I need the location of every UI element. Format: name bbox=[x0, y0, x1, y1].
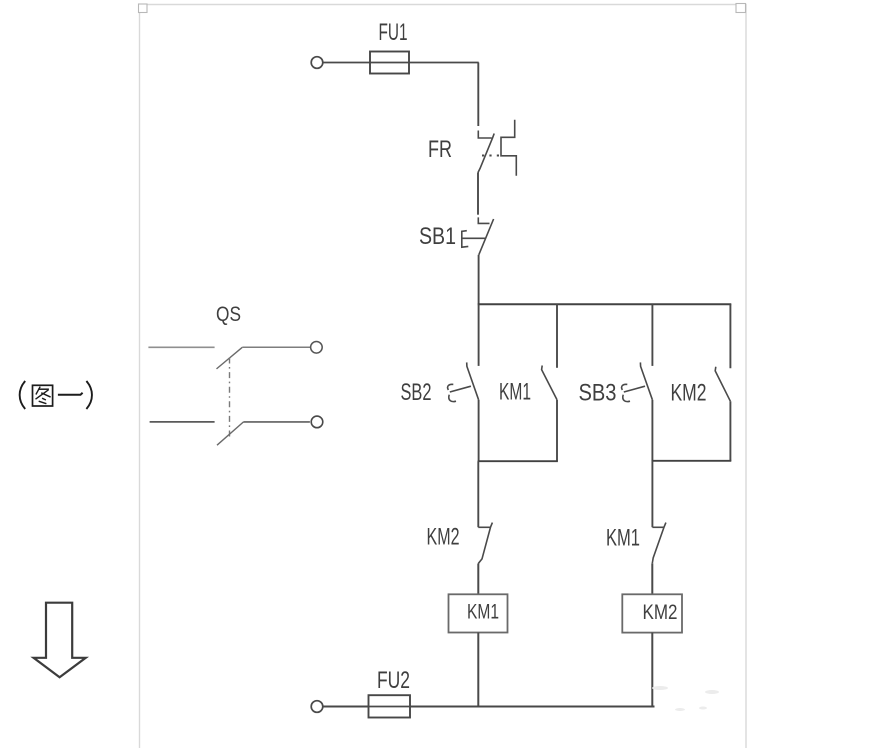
terminal L2 (bottom circle) bbox=[311, 701, 323, 713]
wire KM2 interlock to coil KM1 bbox=[477, 564, 479, 595]
svg-text:SB2: SB2 bbox=[401, 379, 432, 406]
图 outer box bbox=[33, 385, 53, 406]
QS pole 1 lead bbox=[148, 346, 214, 348]
wire KM1 interlock to coil KM2 bbox=[651, 563, 653, 594]
QS terminal circle 2 bbox=[311, 416, 323, 428]
svg-text:KM1: KM1 bbox=[499, 379, 531, 406]
frame handle top-right bbox=[736, 4, 746, 13]
wire SB2 to join bbox=[478, 400, 480, 461]
wire bus drop to SB3 bbox=[651, 304, 653, 366]
wire KM1 contact to join bbox=[556, 400, 558, 461]
image frame border bbox=[140, 5, 747, 748]
wire coil KM1 to bottom rail bbox=[477, 633, 479, 707]
fuse FU1 bbox=[370, 52, 409, 74]
QS pole 1 lead right bbox=[242, 346, 310, 348]
contact KM1 (NO, self-hold) bbox=[542, 366, 557, 400]
svg-text:KM2: KM2 bbox=[643, 600, 678, 624]
svg-text:KM1: KM1 bbox=[606, 525, 640, 552]
svg-text:FU2: FU2 bbox=[377, 667, 410, 694]
frame handle top-left bbox=[139, 4, 148, 13]
coil KM2 bbox=[622, 594, 682, 632]
wire top rail bbox=[323, 62, 479, 64]
interlock contact KM2 (NC) bbox=[478, 523, 492, 564]
QS terminal circle 1 bbox=[311, 342, 323, 354]
QS mechanical link (dash-dot) bbox=[229, 358, 231, 438]
interlock contact KM1 (NC) bbox=[652, 523, 666, 564]
svg-text:SB3: SB3 bbox=[579, 380, 617, 407]
wire join left pair bbox=[478, 460, 558, 462]
coil KM1 bbox=[449, 594, 508, 632]
pushbutton SB3 (NO) bbox=[622, 362, 653, 401]
svg-text:KM2: KM2 bbox=[427, 524, 460, 551]
thermal relay contact FR (NC) bbox=[478, 120, 516, 176]
QS pole 1 blade bbox=[217, 347, 243, 369]
图 inner strokes bbox=[36, 387, 40, 395]
QS pole 2 lead right bbox=[244, 421, 310, 423]
wire coil KM2 to bottom rail bbox=[651, 633, 653, 707]
caption （图一） drawn as strokes bbox=[20, 381, 92, 409]
wire KM2 contact to join bbox=[729, 401, 731, 461]
wire left branch down to KM2 interlock bbox=[477, 461, 479, 527]
svg-text:KM2: KM2 bbox=[671, 380, 707, 407]
pushbutton SB1 (NC) bbox=[462, 217, 494, 254]
svg-text:QS: QS bbox=[216, 302, 241, 326]
terminal L1 (top circle) bbox=[311, 57, 323, 69]
wire join right pair bbox=[652, 460, 732, 462]
contact KM2 (NO, self-hold) bbox=[715, 367, 730, 402]
wire bus drop to KM1 contact bbox=[556, 304, 558, 368]
QS pole 2 lead bbox=[150, 421, 215, 423]
pushbutton SB2 (NO) bbox=[448, 362, 479, 401]
一 bbox=[58, 393, 83, 395]
wire bus drop to SB2 bbox=[478, 304, 480, 366]
faint artifacts bottom right bbox=[652, 686, 719, 711]
svg-text:KM1: KM1 bbox=[467, 600, 499, 624]
svg-text:FU1: FU1 bbox=[379, 19, 408, 46]
down arrow symbol bbox=[34, 603, 86, 678]
wire from FU1 down to FR bbox=[477, 63, 479, 127]
switch QS (2-pole knife) bbox=[148, 342, 322, 446]
wire right branch down to KM1 interlock bbox=[651, 461, 653, 528]
bottom rail wire bbox=[323, 706, 654, 708]
wire bus drop to KM2 contact bbox=[729, 304, 731, 368]
（ bbox=[20, 381, 26, 409]
wire SB3 to join bbox=[651, 400, 653, 461]
wire SB1 to bus bbox=[478, 255, 480, 304]
wire FR to SB1 bbox=[477, 173, 479, 215]
svg-text:SB1: SB1 bbox=[419, 223, 456, 250]
fuse FU2 bbox=[369, 695, 411, 717]
） bbox=[86, 381, 92, 409]
bus wire (horizontal) bbox=[478, 303, 732, 305]
QS pole 2 blade bbox=[217, 422, 244, 445]
svg-text:FR: FR bbox=[428, 136, 452, 163]
